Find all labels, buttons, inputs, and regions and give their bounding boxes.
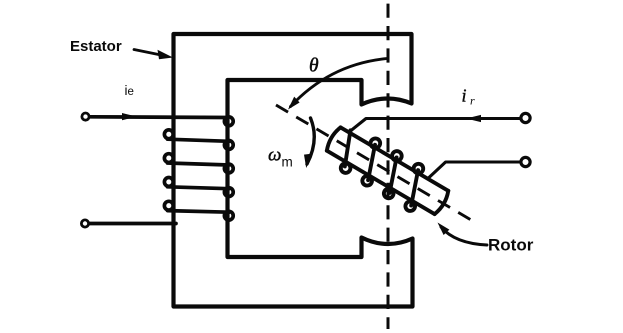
coil loop left 4 bbox=[164, 201, 173, 210]
wire entry top bbox=[91, 115, 228, 119]
rotor end face left bbox=[325, 126, 341, 151]
arrowhead theta arc bbox=[288, 97, 300, 110]
arrowhead omega arc bbox=[304, 154, 313, 169]
svg-text:r: r bbox=[470, 94, 475, 108]
rotor loop top 3 bbox=[412, 162, 425, 175]
svg-text:θ: θ bbox=[309, 56, 319, 77]
coil loop right 2 bbox=[224, 141, 233, 150]
Rotor pointer curve bbox=[441, 227, 487, 245]
coil loop right 3 bbox=[224, 164, 233, 173]
rotor loop bottom 3 bbox=[382, 187, 395, 200]
svg-text:m: m bbox=[282, 155, 293, 170]
rotor axis dash-dot line bbox=[276, 105, 477, 223]
svg-text:i: i bbox=[462, 86, 467, 106]
Estator pointer line bbox=[134, 50, 161, 56]
coil turn wire 3 bbox=[168, 187, 230, 189]
coil loop left 1 bbox=[164, 130, 173, 139]
coil turn wire 2 bbox=[168, 163, 230, 165]
terminal rotor top bbox=[521, 113, 530, 122]
wire exit bottom bbox=[90, 222, 176, 226]
omega_m rotation arrow arc bbox=[307, 118, 314, 164]
rotor turn wire 3 bbox=[379, 157, 407, 192]
rotor lead wire bottom bbox=[429, 162, 520, 178]
rotor loop top 1 bbox=[369, 137, 382, 150]
rotor loop top 2 bbox=[390, 149, 403, 162]
stator core bbox=[174, 34, 413, 307]
svg-text:ie: ie bbox=[125, 83, 134, 98]
rotor loop bottom 1 bbox=[339, 162, 352, 175]
terminal stator top bbox=[82, 113, 89, 120]
rotor bar outline bbox=[327, 127, 448, 214]
rotor loop bottom 4 bbox=[404, 200, 417, 213]
arrowhead Estator pointer bbox=[158, 50, 174, 59]
rotor body (rotated bar) bbox=[319, 118, 455, 224]
coil turn wire 1 bbox=[168, 139, 230, 141]
arrowhead Rotor pointer bbox=[438, 223, 450, 236]
coil loop right 4 bbox=[224, 188, 233, 197]
coil loop right 5 bbox=[224, 211, 233, 220]
coil loop left 2 bbox=[164, 154, 173, 163]
svg-text:Rotor: Rotor bbox=[488, 236, 534, 255]
stator coil (left leg winding) bbox=[90, 117, 233, 224]
rotor lead wire top (ir wire) bbox=[351, 119, 520, 131]
svg-text:Estator: Estator bbox=[70, 38, 122, 55]
terminal rotor bottom bbox=[521, 157, 530, 166]
terminal stator bottom bbox=[81, 220, 88, 227]
rotor end face right bbox=[435, 191, 451, 216]
coil loop right 1 bbox=[224, 117, 233, 126]
rotor turn wire 4 bbox=[401, 170, 429, 205]
svg-text:ω: ω bbox=[268, 145, 281, 166]
vertical reference dashed line bbox=[387, 4, 390, 329]
arrowhead ir wire bbox=[466, 115, 481, 122]
arrowhead ie wire bbox=[122, 113, 137, 120]
theta angle arc bbox=[291, 59, 388, 107]
coil turn wire 4 bbox=[168, 211, 230, 213]
rotor turn wire 2 bbox=[358, 145, 386, 180]
rotor loop bottom 2 bbox=[361, 174, 374, 187]
rotor turn wire 1 bbox=[333, 130, 362, 166]
coil loop left 3 bbox=[164, 178, 173, 187]
